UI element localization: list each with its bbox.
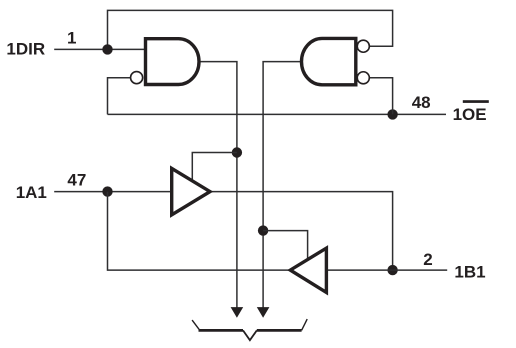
- svg-text:48: 48: [412, 93, 431, 112]
- wire DIR feedback loop (top): [108, 10, 393, 49]
- wire B-buffer input: [326, 269, 392, 271]
- wire 1OE to G2 lower bubble: [370, 78, 393, 115]
- wire 1A1 lead: [54, 191, 172, 193]
- bubble G2 upper input: [357, 40, 369, 52]
- svg-text:1: 1: [67, 28, 76, 47]
- wire A-buffer output to B column: [210, 192, 393, 271]
- wire A-buffer enable: [192, 153, 237, 182]
- brace left bar: [199, 329, 244, 332]
- arrowhead right (to other channels): [257, 307, 270, 318]
- junction dot A-buffer enable tap: [232, 147, 242, 157]
- wire B-buffer enable: [263, 231, 308, 260]
- and-gate G1: [146, 39, 199, 85]
- junction dot on 1DIR at node A-enable loop: [102, 44, 112, 54]
- bubble G1 lower input: [131, 72, 143, 84]
- bubble G2 lower input: [357, 72, 369, 84]
- brace left tick: [192, 320, 200, 330]
- wire B-buffer output back to 1A1 node: [108, 192, 291, 271]
- svg-text:1A1: 1A1: [16, 183, 47, 202]
- overline over OE: [463, 100, 489, 103]
- svg-text:1OE: 1OE: [453, 105, 487, 124]
- brace right bar: [257, 329, 302, 332]
- svg-text:47: 47: [67, 170, 86, 189]
- wire G1 output to left arrow column: [199, 62, 237, 308]
- svg-text:2: 2: [423, 250, 432, 269]
- junction dot B-buffer enable tap: [258, 225, 268, 235]
- buffer U1 (A to B): [172, 168, 210, 214]
- buffer U2 (B to A): [290, 248, 326, 292]
- wire 1OE line: [108, 113, 447, 115]
- wire G2 output to right arrow column: [263, 62, 300, 308]
- svg-text:1B1: 1B1: [454, 263, 485, 282]
- arrowhead left (to other channels): [231, 307, 244, 318]
- junction dot 1B1 node: [387, 265, 397, 275]
- and-gate G2: [302, 38, 356, 84]
- junction dot 1A1 node: [102, 186, 112, 196]
- brace V notch: [243, 330, 257, 340]
- wire G1 inverted input to 1OE line: [108, 78, 131, 115]
- wire 1DIR lead: [54, 48, 145, 50]
- wire 1B1 lead: [393, 269, 448, 271]
- junction dot 1OE node: [387, 109, 397, 119]
- brace right tick: [302, 319, 308, 330]
- svg-text:1DIR: 1DIR: [6, 40, 45, 59]
